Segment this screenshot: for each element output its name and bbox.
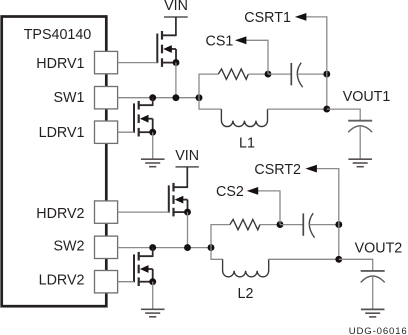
resistor R1: [218, 69, 248, 79]
junction dot SW2/Q3 source: [184, 244, 191, 251]
VIN supply bar (channel 1): [164, 16, 188, 18]
svg-text:LDRV2: LDRV2: [39, 273, 85, 289]
pin box HDRV2: [95, 201, 118, 223]
wire L1 to VOUT1 node: [268, 108, 327, 110]
wire L2 to VOUT2 node: [268, 258, 339, 260]
svg-text:L2: L2: [238, 286, 254, 302]
junction dot node CSRT1: [323, 71, 330, 78]
wire HDRV1 to Q1 gate: [118, 62, 158, 64]
IC U1 TPS40140 outline: [2, 17, 107, 307]
CSRT2 arrowhead: [305, 165, 317, 173]
transistor Q3: [169, 183, 188, 217]
wire LDRV2 to Q4 gate: [118, 281, 134, 283]
wire Q3 source to SW2 node: [187, 212, 189, 248]
junction dot SW1 node corner: [196, 94, 203, 101]
CS1 arrowhead: [235, 36, 247, 44]
wire CSRT1 node to VOUT1 node: [326, 74, 328, 109]
wire Q4 drain to SW2 line: [139, 248, 153, 257]
junction dot VOUT1 node: [323, 106, 330, 113]
svg-text:VIN: VIN: [175, 148, 199, 164]
wire Q4 source to ground: [152, 282, 154, 310]
svg-text:LDRV1: LDRV1: [39, 125, 85, 141]
junction dot VOUT2 node: [335, 256, 342, 263]
transistor Q1: [157, 31, 176, 67]
svg-text:TPS40140: TPS40140: [24, 27, 92, 43]
wire VOUT2 node to C4: [339, 259, 373, 271]
transistor Q4: [134, 252, 153, 286]
capacitor C2: [303, 213, 314, 238]
svg-text:VIN: VIN: [164, 0, 188, 14]
wire CSRT2 node to VOUT2 node: [338, 225, 340, 260]
svg-text:L1: L1: [239, 136, 255, 152]
junction dot node CSRT2: [335, 221, 342, 228]
pin box HDRV1: [95, 51, 118, 73]
wire CS1 node to C1: [268, 73, 291, 75]
junction dot SW1/Q2 drain: [149, 94, 156, 101]
svg-text:CSRT2: CSRT2: [254, 162, 301, 178]
CS2 arrowhead: [247, 187, 259, 195]
wire LDRV1 to Q2 gate: [118, 131, 134, 133]
wire C3 to ground: [359, 126, 361, 159]
resistor R2: [230, 219, 260, 229]
ground for C4: [361, 309, 385, 317]
Q2 source junction dot: [149, 129, 156, 136]
wire C4 to ground: [372, 276, 374, 309]
wire CS1 tap: [246, 40, 269, 74]
pin box SW2: [95, 236, 118, 258]
svg-text:HDRV2: HDRV2: [36, 206, 84, 222]
junction dot SW2 node corner: [208, 244, 215, 251]
wire HDRV2 to Q3 gate: [118, 211, 169, 213]
ground for Q2 source: [141, 159, 165, 167]
ground for Q4 source: [141, 309, 165, 317]
capacitor C1: [291, 63, 302, 87]
wire Q1 source to SW1 node: [175, 63, 177, 98]
wire SW1 node riser to R1: [199, 74, 218, 98]
wire SW2 node riser to R2: [211, 225, 230, 248]
svg-text:CS1: CS1: [206, 34, 234, 50]
wire Q2 drain to SW1 line: [139, 98, 153, 106]
pin box SW1: [95, 87, 118, 109]
svg-text:VOUT2: VOUT2: [355, 241, 403, 257]
pin box LDRV2: [95, 271, 118, 293]
wire C1 to node CSRT1: [298, 73, 327, 75]
wire VIN bar to Q1 drain: [162, 17, 176, 35]
svg-text:CSRT1: CSRT1: [244, 10, 291, 26]
svg-text:UDG-06016: UDG-06016: [349, 326, 408, 335]
CSRT1 arrowhead: [295, 13, 307, 21]
wire C2 to node CSRT2: [310, 224, 339, 226]
svg-text:VOUT1: VOUT1: [343, 89, 391, 105]
svg-text:CS2: CS2: [216, 184, 244, 200]
svg-text:SW2: SW2: [54, 239, 85, 255]
Q1 source junction dot: [173, 59, 180, 66]
VIN supply bar (channel 2): [176, 166, 199, 168]
svg-text:HDRV1: HDRV1: [36, 56, 84, 72]
junction dot SW2/Q4 drain: [149, 244, 156, 251]
wire R1 to node CS1: [248, 73, 268, 75]
wire Q2 source to ground: [152, 132, 154, 159]
Q3 source junction dot: [184, 209, 191, 216]
inductor L2: [223, 259, 269, 277]
wire CSRT1 tap: [306, 17, 327, 74]
wire SW1 corner down to L1: [199, 98, 221, 109]
ground for C3: [348, 159, 372, 167]
wire SW2 corner down to L2: [211, 248, 223, 260]
capacitor C3 (VOUT1 output cap): [348, 121, 372, 133]
wire CS2 tap: [258, 191, 281, 225]
wire VIN bar to Q3 drain: [174, 167, 188, 187]
junction dot node CS2: [277, 221, 284, 228]
wire R2 to node CS2: [260, 224, 280, 226]
wire CSRT2 tap: [316, 169, 339, 225]
wire SW1 node (horizontal): [118, 97, 199, 99]
wire CS2 node to C2: [280, 224, 303, 226]
svg-text:SW1: SW1: [54, 90, 85, 106]
wire VOUT1 node to C3: [327, 109, 360, 121]
pin box LDRV1: [95, 121, 118, 143]
Q4 source junction dot: [149, 278, 156, 285]
junction dot SW1/Q1 source: [172, 94, 179, 101]
wire SW2 node (horizontal): [118, 247, 211, 249]
capacitor C4 (VOUT2 output cap): [361, 271, 385, 283]
inductor L1: [221, 109, 267, 127]
junction dot node CS1: [265, 71, 272, 78]
transistor Q2: [134, 101, 153, 137]
